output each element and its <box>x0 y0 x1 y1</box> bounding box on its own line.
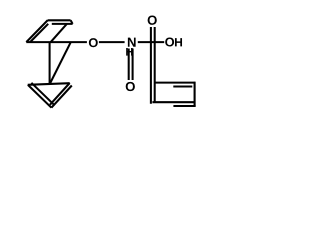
bond triangle top edge <box>28 83 70 85</box>
bond triangle right edge second <box>51 86 71 108</box>
ring lowest bottom edge <box>173 105 195 107</box>
atom label O ether <box>89 38 98 47</box>
atom label O of OH <box>165 37 174 46</box>
ring right edge <box>194 82 196 107</box>
atom label H on N <box>126 48 132 56</box>
bond diagonal bridge <box>50 42 71 84</box>
bond C2=C3 lower line (cage top horizontal, inner) <box>52 23 73 25</box>
bond N=O right line <box>132 49 134 81</box>
ring bottom edge <box>152 101 194 103</box>
ring inner top line <box>173 85 192 87</box>
bond C1=C2 main line (cage upper-left diagonal) <box>26 20 48 42</box>
bond C3-C4 diagonal <box>51 24 67 42</box>
bond N=O left line <box>128 49 130 81</box>
atom label H of OH <box>175 38 182 46</box>
bond vertical bridge <box>49 42 51 85</box>
ring top edge <box>154 82 196 84</box>
bond triangle left edge main <box>28 85 52 108</box>
bond C1=C2 second line (cage upper-left diagonal, inner) <box>30 24 48 42</box>
bond O ether to N <box>99 41 125 43</box>
atom label N <box>128 38 136 47</box>
bond N to C(=O)OH horizontal <box>138 41 164 43</box>
bond C=O / C=C right vertical line <box>154 27 156 102</box>
atom label O below N <box>126 82 135 91</box>
atom label O carbonyl top <box>148 15 157 24</box>
bond C2=C3 upper line (cage top horizontal) <box>48 19 71 21</box>
bond C4-O ether long horizontal <box>26 41 87 43</box>
bond bevel at C3 corner <box>71 20 73 24</box>
bond triangle left edge second <box>31 83 54 106</box>
bond C=O / C=C left vertical line <box>150 27 152 104</box>
bond triangle right edge main <box>50 83 70 105</box>
